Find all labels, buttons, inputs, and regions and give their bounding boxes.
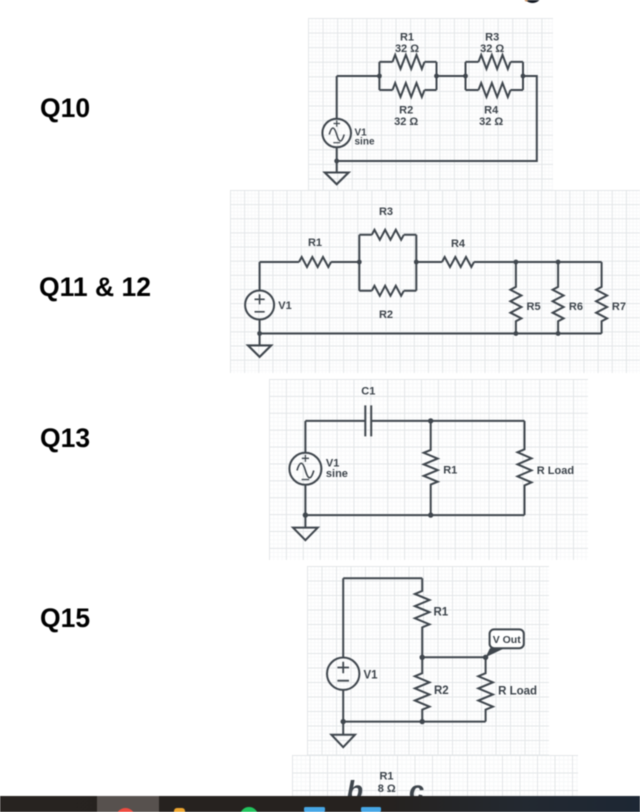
Q15 wire: bottom return xyxy=(343,721,485,723)
Q11 resistor R7 xyxy=(596,262,607,334)
Q11 wire: main left segment xyxy=(260,261,299,263)
svg-text:32 Ω: 32 Ω xyxy=(479,116,503,128)
Q10 ground xyxy=(325,173,349,185)
Q15 V1 minus sign xyxy=(337,680,349,682)
Q13 ground xyxy=(293,528,318,541)
label Q15 xyxy=(40,603,90,634)
Q11 voltage source V1: circle xyxy=(245,291,274,320)
Q15 resistor R Load xyxy=(478,657,493,721)
Q13 junction dot R1 bottom xyxy=(428,512,433,517)
Q15 junction dot R1 bottom node xyxy=(420,655,425,660)
Q10 wire: V1 top vertical xyxy=(336,76,338,119)
Q10 resistor R3 (top branch of right parallel block) xyxy=(466,55,524,90)
Q10 wire: right side down and bottom return xyxy=(337,76,537,161)
Q15 V1 plus sign xyxy=(337,662,349,674)
Q11 wire: bottom return xyxy=(260,333,602,335)
svg-text:32 Ω: 32 Ω xyxy=(394,116,418,128)
Q10 voltage source V1 sine: circle xyxy=(322,119,351,148)
svg-text:R Load: R Load xyxy=(537,465,574,477)
Q15 V Out callout box xyxy=(490,629,524,648)
Q11 resistor R2 (bottom branch) xyxy=(359,235,416,296)
Q11 junction dot R5 top xyxy=(514,260,519,265)
Q15 voltage source V1: circle xyxy=(327,658,359,690)
Q15 junction dot V1 bottom xyxy=(341,719,346,724)
svg-text:32 Ω: 32 Ω xyxy=(480,43,504,55)
Q11 resistor R5 xyxy=(510,262,521,334)
Q10 wire: between parallel blocks xyxy=(437,75,466,77)
Q13 junction dot V1 bottom xyxy=(303,512,308,517)
Q15 ground xyxy=(331,735,355,748)
Q11 V1 plus sign xyxy=(255,294,265,304)
Q10 resistor R2 (bottom branch of left parallel block) xyxy=(379,62,436,97)
Q15 V Out callout pointer wedge xyxy=(486,648,505,657)
Q11 junction dot right of R2R3 block xyxy=(414,260,419,265)
taskbar blue window icon 2 xyxy=(361,807,382,812)
Q13 wire: V1 bottom to ground xyxy=(304,485,306,528)
Q11 wire: V1 top vertical xyxy=(259,262,261,291)
Q10 wire: top horizontal V1 to R1R2 block xyxy=(337,75,380,77)
Q10 V1 plus sign xyxy=(334,120,341,127)
svg-text:R3: R3 xyxy=(379,206,393,218)
svg-text:R4: R4 xyxy=(451,238,466,250)
Q13 V1 plus sign xyxy=(302,455,309,462)
Q11 junction dot R5 bottom xyxy=(514,331,519,336)
taskbar blue window icon 1 xyxy=(304,807,325,812)
Q15 wire: mid horizontal to V Out node xyxy=(422,656,485,658)
Q15 resistor R1 xyxy=(415,578,430,657)
Q11 resistor R1 xyxy=(299,257,331,267)
svg-text:C1: C1 xyxy=(361,386,375,398)
Q15 resistor R2 xyxy=(415,657,430,721)
Q13 voltage source V1 sine: circle xyxy=(289,453,321,485)
label Q13 xyxy=(40,423,90,454)
taskbar orange icon xyxy=(174,808,185,812)
Q10 junction dot left of R3R4 xyxy=(463,74,468,79)
Q10 wire: V1 bottom to ground xyxy=(336,147,338,172)
grid panel Q13 xyxy=(269,379,588,560)
Q11 resistor R3 (top branch) xyxy=(359,230,416,291)
Q10 V1 sine wave xyxy=(329,128,344,141)
svg-text:R1: R1 xyxy=(400,32,414,44)
cropped glyph top of page xyxy=(524,0,540,3)
Q10 junction dot right of R1R2 xyxy=(434,74,439,79)
label Q11 & 12 xyxy=(39,272,151,303)
Q13 V1 minus sign xyxy=(302,479,310,481)
Q10 junction dot right of R3R4 xyxy=(521,74,526,79)
svg-text:R2: R2 xyxy=(434,685,449,697)
Q13 resistor R1 xyxy=(424,421,438,515)
Q13 resistor R Load xyxy=(518,421,532,515)
Q15 wire: top horizontal xyxy=(343,577,422,579)
Q11 wire: R1 to parallel block xyxy=(331,261,359,263)
svg-text:R1: R1 xyxy=(379,771,393,783)
svg-text:R3: R3 xyxy=(485,32,499,44)
svg-text:8 Ω: 8 Ω xyxy=(378,783,396,795)
svg-text:R1: R1 xyxy=(308,237,322,249)
Q15 wire: V1 bottom to ground xyxy=(342,690,344,735)
Q10 junction dot at V1 bottom xyxy=(334,159,339,164)
svg-text:32 Ω: 32 Ω xyxy=(395,43,419,55)
svg-text:R1: R1 xyxy=(434,606,449,618)
Q13 capacitor C1 plates xyxy=(365,405,371,436)
Q15 wire: V1 top vertical xyxy=(342,578,344,657)
taskbar xyxy=(0,796,640,812)
svg-text:V1: V1 xyxy=(278,300,291,312)
grid panel Q10 xyxy=(308,18,553,190)
Q15 junction dot V Out node xyxy=(483,655,488,660)
Q11 junction dot R6 top xyxy=(556,260,561,265)
grid panel Q15 xyxy=(307,566,549,755)
Q10 resistor R4 (bottom branch of right parallel block) xyxy=(466,62,524,97)
Q11 resistor R6 xyxy=(553,262,564,334)
taskbar green icon xyxy=(240,807,258,812)
Q13 wire: top left horizontal to capacitor xyxy=(305,420,365,422)
grid panel Q11 xyxy=(230,190,640,373)
svg-text:R2: R2 xyxy=(379,309,393,321)
Q10 V1 minus sign xyxy=(333,142,340,144)
svg-text:sine: sine xyxy=(326,468,348,480)
taskbar red icon xyxy=(116,808,135,812)
Q15 junction dot R2 bottom xyxy=(420,719,425,724)
Q13 wire: V1 top vertical xyxy=(304,421,306,453)
svg-text:R2: R2 xyxy=(399,105,413,117)
Q11 wire: block to R4 xyxy=(416,261,442,263)
Q13 wire: capacitor to R Load top xyxy=(371,420,524,422)
Q11 junction dot R6 bottom xyxy=(556,331,561,336)
Q11 resistor R4 xyxy=(442,257,474,267)
Q11 junction dot left of R2R3 block xyxy=(357,260,362,265)
svg-text:sine: sine xyxy=(355,137,375,148)
Q11 V1 minus sign xyxy=(255,311,265,313)
svg-text:V1: V1 xyxy=(364,670,379,682)
svg-text:R4: R4 xyxy=(484,105,499,117)
svg-text:R Load: R Load xyxy=(498,685,537,697)
grid panel bottom xyxy=(292,755,578,796)
svg-text:V Out: V Out xyxy=(493,634,522,646)
svg-text:R5: R5 xyxy=(527,301,541,313)
taskbar active segment xyxy=(97,796,159,812)
label Q10 xyxy=(40,93,90,124)
Q11 junction dot V1 bottom xyxy=(257,331,262,336)
Q10 junction dot left of R1R2 xyxy=(377,74,382,79)
Q10 resistor R1 (top branch of left parallel block) xyxy=(379,55,436,90)
svg-text:R6: R6 xyxy=(569,301,583,313)
svg-text:R7: R7 xyxy=(612,301,626,313)
Q13 junction dot R1 top xyxy=(428,418,433,423)
Q11 ground xyxy=(248,345,271,357)
Q13 V1 sine wave xyxy=(297,463,314,478)
svg-text:R1: R1 xyxy=(443,465,457,477)
Q13 wire: bottom return xyxy=(305,514,524,516)
Q11 wire: R4 to R7 top xyxy=(474,261,602,263)
Q11 wire: V1 bottom to ground xyxy=(259,320,261,346)
